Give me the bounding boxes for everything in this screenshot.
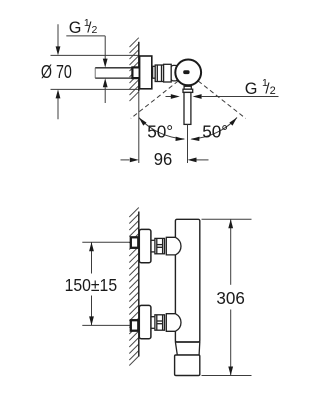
svg-text:50°: 50° (202, 121, 228, 141)
svg-text:G: G (245, 80, 258, 98)
svg-text:96: 96 (154, 149, 173, 169)
svg-text:2: 2 (92, 24, 98, 36)
svg-text:G: G (69, 19, 82, 37)
svg-text:150±15: 150±15 (65, 275, 118, 295)
svg-text:2: 2 (270, 85, 276, 97)
svg-text:50°: 50° (147, 121, 173, 141)
svg-text:306: 306 (216, 288, 245, 308)
svg-text:Ø 70: Ø 70 (41, 62, 72, 82)
